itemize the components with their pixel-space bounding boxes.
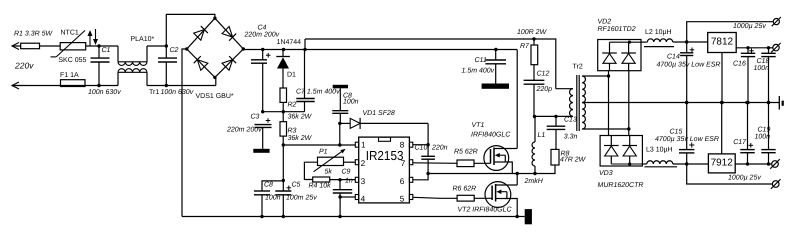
wire R5 to VT1 gate (474, 162, 491, 164)
plus C14 (690, 49, 695, 51)
node gnd C18 (767, 101, 770, 104)
node gnd C17 (745, 101, 748, 104)
node C5 rail (282, 215, 285, 218)
inductor L2 (647, 39, 672, 42)
svg-text:L1: L1 (538, 132, 546, 139)
svg-text:1.5m 400v: 1.5m 400v (462, 68, 495, 75)
node C16 top (746, 46, 749, 49)
node C8 C5 tee (282, 179, 285, 182)
svg-text:VD3: VD3 (599, 170, 613, 177)
node cap midpoint (261, 110, 264, 113)
svg-text:IR2153: IR2153 (366, 148, 404, 163)
choke Tr1 bottom winding (117, 72, 119, 85)
input arrow bottom (12, 85, 25, 87)
node L1 bottom (533, 172, 536, 175)
node pin4 rail (338, 215, 341, 218)
svg-text:VT2 IRFI840GLC: VT2 IRFI840GLC (458, 207, 513, 214)
svg-text:VT1: VT1 (472, 122, 485, 129)
svg-text:IRFI840GLC: IRFI840GLC (471, 132, 511, 139)
node C1 top (97, 44, 100, 47)
svg-text:VDS1 GBU*: VDS1 GBU* (196, 93, 234, 100)
choke Tr1 top winding (117, 46, 119, 62)
terminal -12V (772, 161, 779, 168)
svg-text:PLA10*: PLA10* (131, 36, 155, 43)
wire NTC1 to node (86, 45, 118, 47)
svg-text:P1: P1 (319, 149, 328, 156)
capacitor C2 (158, 57, 177, 59)
wire 7912 out (735, 163, 772, 165)
svg-text:VD1 SF28: VD1 SF28 (363, 110, 395, 117)
svg-text:220m 200v: 220m 200v (244, 32, 280, 39)
resistor R8 (551, 149, 559, 165)
node pin4 (338, 195, 341, 198)
resistor R2 (280, 88, 287, 102)
IR2153 pin stubs (355, 142, 358, 147)
svg-text:100n: 100n (343, 99, 359, 106)
wire tee to C8 (262, 181, 283, 191)
svg-text:R1 3.3R 5W: R1 3.3R 5W (14, 31, 54, 38)
inductor L1 (534, 117, 536, 143)
wire Vcc node riser (339, 123, 341, 145)
ground bar below C3 (253, 149, 269, 153)
wire pin5 to R6 (413, 197, 457, 198)
ground terminal right (778, 96, 780, 110)
node bottom tap (627, 127, 630, 130)
wire VD2 out to L2 (641, 41, 647, 43)
svg-text:1N4744: 1N4744 (277, 39, 302, 46)
resistor R6 (457, 195, 474, 201)
VD3 diode right (622, 145, 637, 147)
svg-text:C18: C18 (757, 58, 770, 65)
node gnd C14 (685, 101, 688, 104)
plus C16 (749, 50, 754, 52)
svg-text:C11: C11 (475, 57, 487, 64)
svg-text:C4: C4 (258, 25, 267, 32)
svg-text:C14: C14 (667, 54, 680, 61)
svg-text:36k 2W: 36k 2W (288, 113, 313, 121)
plus C17 (749, 144, 754, 146)
bridge diode bottom-right (222, 60, 233, 71)
node bridge top (213, 17, 216, 20)
capacitor C13 (555, 116, 557, 126)
node C1 bottom (97, 84, 100, 87)
capacitor C14 (686, 42, 688, 53)
svg-text:Tr2: Tr2 (573, 64, 583, 71)
wire secondary bottom tap (582, 128, 629, 130)
capacitor C8 (254, 190, 270, 192)
svg-text:C3: C3 (251, 114, 260, 121)
svg-text:Tr1: Tr1 (149, 89, 159, 96)
resistor R4 (313, 177, 330, 182)
node gnd C19 (767, 101, 770, 104)
surge arrow up (89, 36, 91, 46)
wire bottom AC input (12, 85, 61, 87)
node pin8 C10 (426, 143, 429, 146)
node C11 top (494, 48, 497, 51)
node bridge right (242, 47, 245, 50)
wire AC2 riser (215, 78, 217, 86)
svg-text:3.3n: 3.3n (564, 134, 578, 141)
wire Tr1 to C2 top (147, 45, 166, 47)
svg-text:4700µ 35v Low ESR: 4700µ 35v Low ESR (655, 136, 719, 143)
svg-text:220p: 220p (536, 86, 553, 93)
node VT2 source rail (516, 215, 519, 218)
trimmer P1 (318, 157, 344, 165)
wire Vcc drop to caps (282, 145, 284, 191)
inductor L3 (647, 161, 673, 164)
capacitor C5 (275, 190, 291, 192)
wire R8 to midpoint (517, 165, 555, 174)
node C18 top (767, 46, 770, 49)
node gnd C16 (746, 101, 749, 104)
svg-text:C8: C8 (264, 182, 273, 189)
wire VT1 drain riser (516, 50, 518, 149)
node bridge bottom (213, 76, 216, 79)
node gnd C15 (685, 101, 688, 104)
svg-text:RF1601TD2: RF1601TD2 (598, 26, 636, 33)
capacitor C17 (747, 103, 749, 150)
bridge VDS1 diamond (187, 18, 244, 77)
wire cap midpoint (263, 111, 305, 113)
capacitor C7 (304, 50, 306, 99)
plus C15 (689, 144, 694, 146)
wire C12 node to C13 (534, 115, 573, 117)
wire pin6 riser (413, 174, 428, 180)
wire VT2 source (505, 199, 517, 217)
regulator 7912 (708, 154, 735, 173)
wire VD2 right anode drop (628, 71, 630, 136)
wire VT2 drain riser (516, 174, 518, 186)
node R2 R3 junction (282, 110, 285, 113)
wire R3 to Vcc node (282, 136, 284, 145)
svg-text:C15: C15 (670, 129, 683, 136)
wire F1 to C1 (61, 85, 119, 87)
bridge diode top-left (194, 30, 205, 41)
node gnd 7912 (720, 101, 723, 104)
wire 7912 gnd (721, 103, 723, 154)
diode VD1 (340, 122, 350, 124)
svg-text:220n: 220n (431, 145, 448, 152)
rectifier VD3 body (600, 136, 642, 167)
transformer Tr2 secondary (582, 76, 585, 129)
wire L2 to C14 (673, 41, 708, 43)
svg-text:NTC1: NTC1 (61, 30, 79, 37)
transformer Tr2 primary (556, 88, 573, 90)
node gnd 7812 (720, 101, 723, 104)
svg-text:VD2: VD2 (598, 19, 612, 26)
node C2 top (165, 44, 168, 47)
wire VD1 to pin8 (413, 123, 428, 144)
resistor R1 (21, 43, 40, 49)
input arrow top (12, 45, 21, 47)
wire C7 riser (304, 39, 306, 50)
fuse F1 (61, 80, 86, 87)
svg-text:2: 2 (361, 159, 366, 168)
transformer Tr2 core (576, 75, 578, 131)
bus bar end (525, 209, 532, 224)
capacitor C1 (98, 46, 100, 58)
svg-text:F1 1A: F1 1A (60, 72, 79, 79)
svg-text:C1: C1 (102, 47, 111, 54)
wire pin4 com (340, 196, 355, 198)
capacitor C15 (686, 103, 688, 150)
capacitor C3 (255, 124, 272, 126)
node VD1 anode (338, 122, 341, 125)
transistor VT2 (485, 182, 511, 208)
thermistor NTC1 (60, 43, 85, 50)
node C9 top (338, 178, 341, 181)
VD3 diode left (604, 145, 619, 147)
resistor R5 (457, 160, 474, 167)
wire R4 to pin3 (330, 179, 356, 181)
wire AC1 overhead (166, 14, 215, 46)
node D1 top (282, 48, 285, 51)
wire VD3 out (642, 163, 646, 165)
node C14 top (685, 40, 688, 43)
svg-text:100n: 100n (754, 65, 770, 72)
wire pin7 to R5 (413, 162, 457, 165)
surge arrow down (95, 29, 97, 39)
svg-text:100n 630v: 100n 630v (161, 89, 194, 96)
capacitor C4 (262, 50, 264, 60)
wire pin4 to ground rail (339, 197, 341, 217)
svg-text:36k 2W: 36k 2W (288, 134, 313, 142)
node C19 bottom (767, 162, 770, 165)
bridge diode bottom-left (197, 60, 208, 71)
svg-text:220v: 220v (14, 61, 34, 71)
node VS junction (426, 172, 429, 175)
wire P1 to pin2 (344, 161, 356, 163)
wire Tr1 to C2 bottom (147, 85, 216, 87)
capacitor C12 (524, 79, 545, 81)
svg-text:C7 1.5m 400v: C7 1.5m 400v (296, 89, 340, 96)
svg-text:R5 62R: R5 62R (454, 149, 478, 156)
terminal raw -V (772, 181, 779, 188)
wire VD2 left anode drop (608, 71, 610, 136)
resistor R7 (531, 45, 538, 65)
svg-text:C10: C10 (415, 145, 428, 152)
wire L3 to 7912 (673, 163, 709, 165)
svg-text:MUR1620CTR: MUR1620CTR (598, 182, 644, 189)
wire +310V bus (243, 49, 517, 51)
wire DC-minus drop (182, 49, 187, 217)
node Vcc left (282, 143, 285, 146)
rectifier VD2 body (598, 40, 641, 71)
wire P1 left link (304, 162, 317, 179)
capacitor C11 (495, 50, 497, 61)
capacitor C9 (339, 180, 341, 190)
svg-text:C19: C19 (758, 127, 771, 134)
node Vcc riser (338, 143, 341, 146)
wire R6 to VT2 gate (474, 197, 492, 199)
svg-text:SKC 055: SKC 055 (58, 57, 86, 64)
regulator 7812 (708, 33, 737, 53)
svg-text:R7: R7 (520, 43, 530, 50)
node C8 rail (260, 215, 263, 218)
capacitor C10 (427, 145, 429, 157)
wire top AC input (12, 45, 21, 47)
svg-text:100n: 100n (265, 195, 281, 202)
svg-text:7912: 7912 (711, 157, 734, 168)
bus bar below C11 (482, 84, 509, 89)
node C4 top (261, 48, 264, 51)
svg-text:4700µ 35v Low ESR: 4700µ 35v Low ESR (657, 62, 721, 69)
capacitor C6 (339, 88, 341, 110)
op-amp U1 IR2153 body (359, 137, 410, 203)
wire 7812 out (736, 47, 773, 49)
resistor R3 (280, 122, 287, 136)
svg-text:1000µ 25v: 1000µ 25v (728, 175, 761, 182)
svg-text:2mkH: 2mkH (524, 177, 544, 185)
node C15 bottom (685, 162, 688, 165)
wire VT1 source (505, 162, 512, 174)
capacitor C18 (768, 48, 770, 54)
VD2 diode left (602, 52, 617, 54)
node half-bridge midpoint (516, 172, 519, 175)
wire R2 to R3 (282, 102, 284, 121)
svg-text:100R 2W: 100R 2W (517, 29, 548, 36)
svg-text:R3: R3 (288, 128, 297, 135)
svg-text:L2 10µH: L2 10µH (645, 29, 672, 36)
svg-text:R6 62R: R6 62R (453, 186, 477, 193)
svg-text:100n: 100n (755, 134, 771, 141)
svg-text:R2: R2 (288, 102, 297, 109)
node top tap (607, 74, 610, 77)
wire primary ground rail (182, 216, 525, 218)
svg-text:1: 1 (361, 141, 366, 150)
svg-text:8: 8 (400, 141, 405, 150)
svg-text:C12: C12 (537, 71, 550, 78)
svg-text:47R 2W: 47R 2W (560, 156, 587, 163)
svg-text:1n: 1n (345, 178, 353, 185)
svg-text:6: 6 (400, 177, 405, 186)
node C13 top (554, 115, 557, 118)
bus bar above C6 (333, 85, 348, 89)
svg-text:3: 3 (361, 177, 366, 186)
svg-text:C9: C9 (342, 169, 351, 176)
node C17 bottom (746, 162, 749, 165)
svg-text:L3 10µH: L3 10µH (646, 147, 673, 154)
wire raw +V takeoff (687, 22, 773, 42)
wire VS midpoint (428, 173, 517, 175)
terminal +12V (773, 44, 779, 50)
svg-text:C2: C2 (170, 47, 179, 54)
node C12 bottom (533, 115, 536, 118)
svg-text:5k: 5k (325, 168, 333, 176)
capacitor C19 (768, 103, 770, 150)
svg-text:D1: D1 (287, 72, 296, 79)
bridge diode top-right (222, 27, 233, 38)
wire raw -V takeoff (687, 164, 773, 184)
svg-text:100n 630v: 100n 630v (88, 89, 121, 96)
wire Vcc horizontal (283, 144, 355, 146)
svg-text:C17: C17 (733, 139, 747, 146)
svg-text:7: 7 (401, 159, 406, 168)
svg-text:220m 200v: 220m 200v (226, 127, 262, 134)
plus C4 (266, 54, 271, 56)
node bridge left (185, 47, 188, 50)
svg-text:C13: C13 (564, 117, 577, 124)
capacitor C16 (747, 48, 749, 54)
plus C3 (266, 120, 271, 122)
wire upper rail (305, 39, 556, 89)
wire secondary top tap (582, 75, 608, 77)
wire R1 to NTC1 (39, 45, 60, 47)
svg-text:C16: C16 (733, 61, 746, 68)
svg-text:R4 10k: R4 10k (309, 182, 332, 190)
svg-text:100m 25v: 100m 25v (286, 195, 317, 202)
node C2 bottom (165, 84, 168, 87)
svg-text:1000µ 25v: 1000µ 25v (733, 23, 766, 30)
wire R7 to C12 (533, 39, 535, 45)
wire 7812 gnd (721, 53, 723, 103)
svg-text:7812: 7812 (711, 37, 734, 48)
svg-text:C5: C5 (292, 182, 301, 189)
terminal raw +V (773, 19, 779, 25)
node C7 top (303, 48, 306, 51)
VD2 diode right (621, 52, 636, 54)
wire secondary center tap (582, 102, 779, 104)
svg-text:5: 5 (400, 194, 405, 203)
svg-text:4: 4 (361, 194, 366, 203)
transistor VT1 (484, 146, 509, 171)
diode D1 zener (276, 56, 290, 58)
node R7 top (532, 37, 535, 40)
plus C5 (287, 187, 292, 189)
